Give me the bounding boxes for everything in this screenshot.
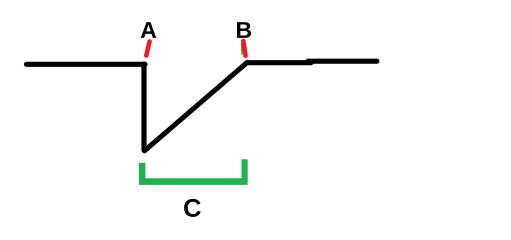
wire right horizontal segment 1: [248, 60, 311, 65]
wire left horizontal segment: [27, 62, 146, 67]
bracket C left vertical: [139, 163, 145, 182]
wire right horizontal segment 2: [308, 59, 377, 64]
bracket C bottom bar: [139, 178, 248, 185]
node B green sliver behind tick: [241, 44, 244, 55]
bracket C right vertical: [242, 159, 248, 181]
wire vertical drop segment: [141, 64, 146, 150]
node B label: [237, 22, 251, 38]
node A red tick marker: [146, 42, 149, 56]
node A label: [141, 22, 156, 38]
node B red tick marker: [243, 41, 245, 56]
wire diagonal ramp segment: [145, 62, 248, 151]
label C: [184, 199, 201, 217]
